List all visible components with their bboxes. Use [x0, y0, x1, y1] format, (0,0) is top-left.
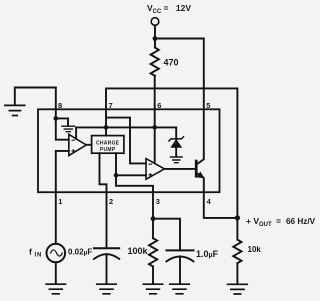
- svg-text:1: 1: [58, 197, 62, 206]
- emitter arrowhead: [197, 172, 203, 178]
- op-amp U1a input comparator: [69, 134, 86, 155]
- wire pin 4 to VOUT node: [204, 192, 238, 218]
- wire op-amp output to transistor base: [164, 168, 195, 170]
- ground (1.0uF): [170, 284, 189, 294]
- wire node to 1.0uF: [153, 219, 180, 250]
- svg-text:7: 7: [109, 101, 113, 110]
- wire node to pin 3: [116, 175, 153, 192]
- wire pin 6 into rail: [154, 109, 156, 127]
- svg-text:10k: 10k: [248, 245, 262, 254]
- svg-text:3: 3: [156, 197, 160, 206]
- svg-text:0.02µF: 0.02µF: [68, 247, 92, 256]
- node VCC junction: [153, 36, 158, 41]
- node pin8 internal: [54, 116, 59, 121]
- resistor 100k: [152, 219, 154, 239]
- wire charge pump to pin 2: [100, 153, 107, 192]
- svg-text:5: 5: [206, 101, 210, 110]
- capacitor 1.0uF: [167, 249, 194, 251]
- svg-text:1.0µF: 1.0µF: [196, 249, 219, 259]
- transistor Q1 collector to pin 5: [196, 109, 204, 164]
- wire pin 8 to comparator minus: [55, 109, 57, 118]
- wire charge pump to op-amp plus / pin 3: [115, 153, 117, 175]
- ground (0.02uF): [97, 284, 116, 294]
- node pin 3: [151, 216, 156, 221]
- wire VCC node to pin 5: [155, 39, 204, 110]
- wire resistor to pin 6: [154, 76, 156, 110]
- ground (top left): [15, 88, 56, 105]
- ground (10k): [228, 284, 248, 294]
- ground (100k): [143, 284, 162, 294]
- opamp plus mark: [149, 173, 153, 177]
- wire pin 7 to charge pump top: [105, 109, 107, 135]
- ground internal (comparator ref): [56, 118, 68, 125]
- node VOUT: [235, 215, 240, 220]
- wire rail to op-amp supply: [154, 127, 156, 163]
- resistor 470: [151, 48, 159, 76]
- wire pin 7 jog to op-amp minus: [106, 118, 146, 164]
- zener diode: [175, 127, 177, 138]
- wire ground to pin 8: [55, 88, 57, 110]
- opamp minus mark: [149, 163, 153, 165]
- svg-text:PUMP: PUMP: [100, 147, 116, 153]
- capacitor 0.02uF: [106, 192, 108, 247]
- sine wave symbol: [51, 250, 63, 256]
- ground internal (zener): [171, 157, 183, 163]
- wire VCC terminal to node: [154, 25, 156, 38]
- wire node to op-amp plus input: [116, 174, 146, 176]
- node charge pump output: [114, 173, 119, 178]
- wire VCC node to resistor: [154, 39, 156, 48]
- transistor Q1 base bar: [195, 161, 198, 176]
- op-amp U1b: [146, 159, 164, 180]
- comparator minus mark: [72, 139, 76, 141]
- wire pin 1 to comparator plus: [56, 151, 69, 192]
- wire fIN to ground: [55, 262, 57, 283]
- svg-text:CHARGE: CHARGE: [96, 141, 120, 147]
- wire pin 7 feedback to VOUT node: [106, 88, 237, 218]
- wire pin 3 node: [152, 192, 154, 219]
- wire comparator output to charge pump: [86, 144, 91, 146]
- VCC terminal: [151, 18, 159, 26]
- svg-text:100k: 100k: [128, 246, 149, 256]
- charge pump block: [92, 136, 124, 154]
- svg-text:8: 8: [58, 101, 62, 110]
- wire pin 1 to source fIN: [55, 192, 57, 244]
- IC outline U1: [38, 109, 220, 192]
- svg-text:470: 470: [164, 58, 179, 68]
- node pin 6 rail: [152, 125, 157, 130]
- svg-text:6: 6: [157, 101, 161, 110]
- resistor 10k: [236, 218, 238, 240]
- comparator plus mark: [72, 149, 76, 153]
- source fIN circle: [47, 244, 66, 263]
- wire rail to comparator supply: [75, 127, 77, 138]
- transistor Q1 emitter to pin 4: [196, 173, 204, 192]
- wire rail to zener: [76, 126, 176, 128]
- wire pin 8 node to comparator minus input: [56, 118, 69, 139]
- ground (fIN): [46, 284, 65, 294]
- node charge pump supply rail: [104, 125, 109, 130]
- svg-text:2: 2: [109, 197, 113, 206]
